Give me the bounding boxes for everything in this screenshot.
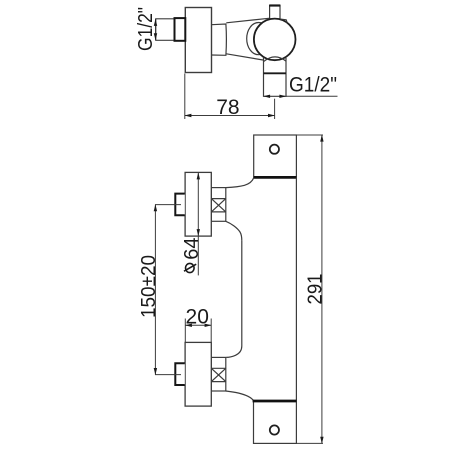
neck between body and cone <box>212 24 227 55</box>
label phi64 <box>181 237 203 272</box>
svg-text:150±20: 150±20 <box>138 255 160 318</box>
dimension 20: dim line <box>185 324 212 327</box>
outlet collar line <box>264 72 287 74</box>
label 150+-20 <box>138 255 160 318</box>
lower wall plate screw hole <box>270 425 279 434</box>
knob top tab <box>269 6 280 21</box>
body lower S-curve <box>226 391 254 401</box>
label G1/2 outlet <box>289 73 337 96</box>
label 291 <box>304 274 326 305</box>
dimension 291: dim line <box>320 135 323 444</box>
upper wall plate <box>254 135 297 177</box>
dimension 291: extension lines <box>296 135 323 443</box>
svg-text:64: 64 <box>181 237 203 259</box>
body left edge <box>241 241 243 346</box>
cone top edge (neck to knob) <box>226 18 270 23</box>
svg-text:78: 78 <box>216 96 239 119</box>
knob circle <box>254 19 296 61</box>
outlet mouth ellipse arc <box>264 57 286 62</box>
lower handle cap <box>175 363 185 385</box>
body upper S-curve <box>226 178 254 188</box>
dimension G1/2 outlet: arrows and leader <box>263 95 337 98</box>
dimension 150+-20: extension lines <box>155 205 181 375</box>
svg-text:G1/2": G1/2" <box>135 7 157 51</box>
upper handle cap <box>175 194 185 216</box>
dimension 20: extension lines <box>185 319 211 343</box>
label 78 <box>216 96 239 119</box>
upper handle <box>185 172 211 236</box>
body curve below upper valve <box>226 221 242 240</box>
shower outlet pipe (top view) <box>264 58 287 96</box>
lower handle <box>185 342 211 406</box>
dimension 78: extension lines <box>185 74 275 120</box>
svg-text:291: 291 <box>304 274 326 305</box>
cone end ellipse <box>247 22 271 54</box>
cone bottom edge (neck to outlet) <box>226 54 263 60</box>
lower plate thick top line <box>253 400 297 403</box>
upper wall plate screw hole <box>270 145 279 154</box>
dimension 78: dim line <box>184 114 275 117</box>
faucet body (top view) <box>185 8 211 73</box>
dimension phi64: dim line <box>197 172 200 275</box>
label 20 <box>186 305 209 328</box>
upper cartridge box with X <box>211 188 226 222</box>
dimension 150+-20: dim line <box>154 204 157 375</box>
dimension G1/2 inlet: dim line <box>154 19 157 41</box>
lower cartridge box with X <box>211 357 226 391</box>
label G1/2 inlet <box>135 7 157 51</box>
cone top edge nub right of knob <box>280 19 287 23</box>
upper plate thick base line <box>254 176 297 179</box>
inlet nut <box>175 18 186 41</box>
lower wall plate <box>254 401 297 443</box>
body curve above lower valve <box>226 346 242 357</box>
inlet connection pipe <box>156 19 175 41</box>
svg-text:20: 20 <box>186 305 209 328</box>
body right edge <box>295 177 297 401</box>
svg-text:G1/2": G1/2" <box>289 73 337 96</box>
